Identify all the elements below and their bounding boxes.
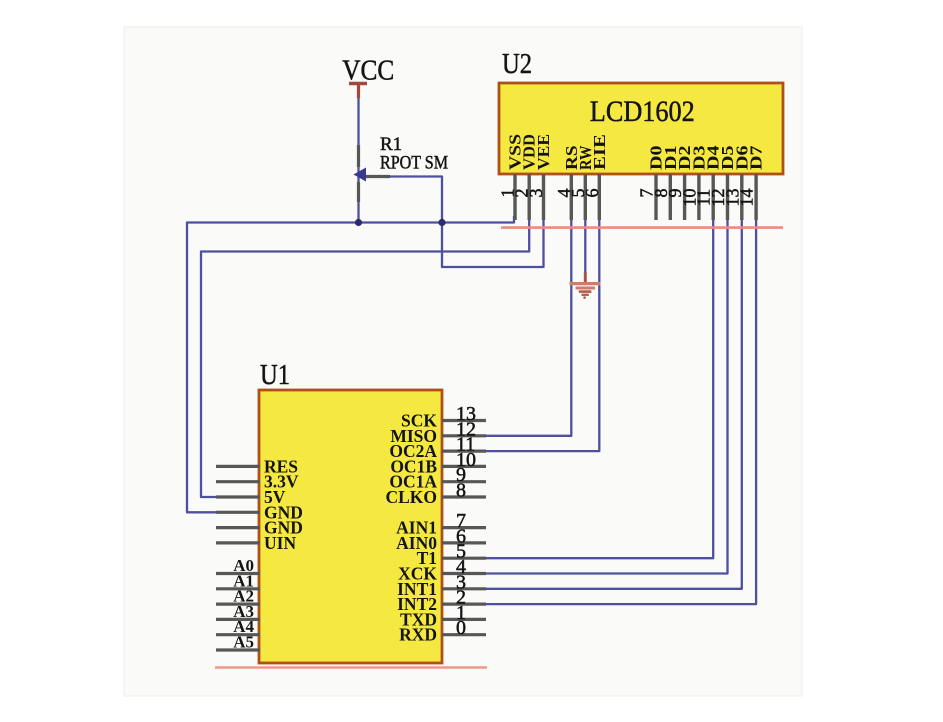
wire D6: LCD pin13 down to INT1 row, left to U1 pin 3	[485, 220, 742, 589]
wire RW: LCD pin5 down to ground symbol	[584, 218, 586, 277]
resistor R1 RPOT body gray segment lower	[357, 182, 360, 202]
U1 right pin 3 (INT1) stub	[442, 587, 486, 590]
U1 right pin 8 (CLKO) stub	[442, 495, 486, 498]
U1 left pin (5V) stub	[216, 495, 260, 498]
R1 wiper stub gray	[362, 175, 390, 178]
salmon scan line under LCD pins	[501, 226, 783, 229]
wire D5: LCD pin12 down to XCK row, left to U1 pin 4	[485, 220, 728, 574]
power symbol VCC stem	[357, 85, 360, 98]
LCD pin 6 (EIE) stub	[598, 174, 601, 220]
U1 right pin 7 (AIN1) stub	[442, 526, 486, 529]
IC U1 body	[259, 390, 442, 663]
wire VCC vertical to R1 and junction	[357, 97, 359, 223]
svg-text:8: 8	[456, 480, 466, 502]
U1 left pin (A5) stub	[216, 648, 260, 651]
LCD pin 12 (D5) stub	[726, 174, 729, 220]
LCD pin 7 (D0) stub	[654, 174, 657, 220]
svg-text:VCC: VCC	[342, 55, 394, 86]
U1 right pin 11 (OC2A) stub	[442, 450, 486, 453]
U1 right pin 0 (RXD) stub	[442, 633, 486, 636]
LCD pin 8 (D1) stub	[669, 174, 672, 220]
svg-text:D7: D7	[747, 146, 766, 171]
LCD pin 2 (VDD) stub	[528, 174, 531, 220]
svg-text:RXD: RXD	[399, 625, 437, 645]
wire VSS/GND net: y=222.5 from x=187 to LCD pin1, down left side to U1 GND pin	[187, 216, 514, 512]
power symbol VCC bar	[349, 82, 367, 85]
ground symbol below RW pin	[584, 273, 587, 283]
U1 left pin (A1) stub	[216, 587, 260, 590]
U1 left pin (UIN) stub	[216, 541, 260, 544]
wire RS: LCD pin4 down to MISO row, left to U1 pin 12	[485, 218, 571, 436]
U1 left pin (A4) stub	[216, 633, 260, 636]
U1 right pin 5 (T1) stub	[442, 557, 486, 560]
wire E: LCD pin6 down to OC2A row, left to U1 pin 11	[485, 218, 599, 451]
junction dot at x=442 on GND wire	[438, 219, 445, 226]
svg-text:LCD1602: LCD1602	[590, 95, 695, 128]
svg-text:U2: U2	[502, 48, 532, 80]
svg-text:UIN: UIN	[264, 533, 296, 553]
scanned page area	[124, 27, 802, 696]
U1 right pin 9 (OC1A) stub	[442, 480, 486, 483]
U1 right pin 2 (INT2) stub	[442, 602, 486, 605]
svg-text:RPOT SM: RPOT SM	[380, 153, 448, 174]
LCD pin 1 (VSS) stub	[513, 174, 516, 220]
wire VEE net: R1 wiper right, down at x=442, right at y=267 to LCD pin3	[362, 177, 544, 268]
U1 left pin (3.3V) stub	[216, 480, 260, 483]
svg-text:CLKO: CLKO	[385, 487, 437, 507]
U1 left pin (GND) stub	[216, 511, 260, 514]
U1 left pin (A2) stub	[216, 602, 260, 605]
salmon scan line under U1	[215, 666, 487, 669]
wire D4: LCD pin11 down to T1 row, left to U1 pin 5	[485, 220, 713, 558]
U1 right pin 10 (OC1B) stub	[442, 465, 486, 468]
IC U2 LCD1602 body	[499, 83, 783, 174]
resistor R1 RPOT body gray segment upper	[357, 145, 360, 167]
LCD pin 11 (D4) stub	[712, 174, 715, 220]
R1 wiper arrow	[354, 168, 367, 182]
U1 left pin (GND) stub	[216, 526, 260, 529]
LCD pin 3 (VEE) stub	[542, 174, 545, 220]
U1 right pin 6 (AIN0) stub	[442, 541, 486, 544]
svg-text:EIE: EIE	[590, 134, 609, 170]
svg-text:6: 6	[582, 189, 602, 198]
LCD pin 10 (D3) stub	[697, 174, 700, 220]
svg-text:VEE: VEE	[534, 134, 553, 170]
U1 right pin 1 (TXD) stub	[442, 618, 486, 621]
svg-text:A5: A5	[233, 633, 254, 652]
U1 right pin 12 (MISO) stub	[442, 434, 486, 437]
LCD pin 9 (D2) stub	[683, 174, 686, 220]
U1 left pin (A3) stub	[216, 618, 260, 621]
svg-text:14: 14	[737, 189, 757, 207]
wire D7: LCD pin14 down to INT2 row, left to U1 pin 2	[485, 220, 756, 604]
LCD pin 13 (D6) stub	[740, 174, 743, 220]
svg-text:U1: U1	[260, 359, 290, 391]
LCD pin 5 (RW) stub	[584, 174, 587, 220]
junction dot at R1 bottom on GND wire	[355, 219, 362, 226]
U1 left pin (RES) stub	[216, 465, 260, 468]
LCD pin 14 (D7) stub	[754, 174, 757, 220]
svg-text:3: 3	[526, 189, 546, 198]
svg-text:0: 0	[456, 617, 466, 639]
U1 left pin (A0) stub	[216, 572, 260, 575]
wire VDD/5V net: LCD pin2 down, left at y=251.5, down x=203 to U1 5V pin	[201, 218, 529, 497]
LCD pin 4 (RS) stub	[570, 174, 573, 220]
U1 right pin 4 (XCK) stub	[442, 572, 486, 575]
U1 right pin 13 (SCK) stub	[442, 419, 486, 422]
